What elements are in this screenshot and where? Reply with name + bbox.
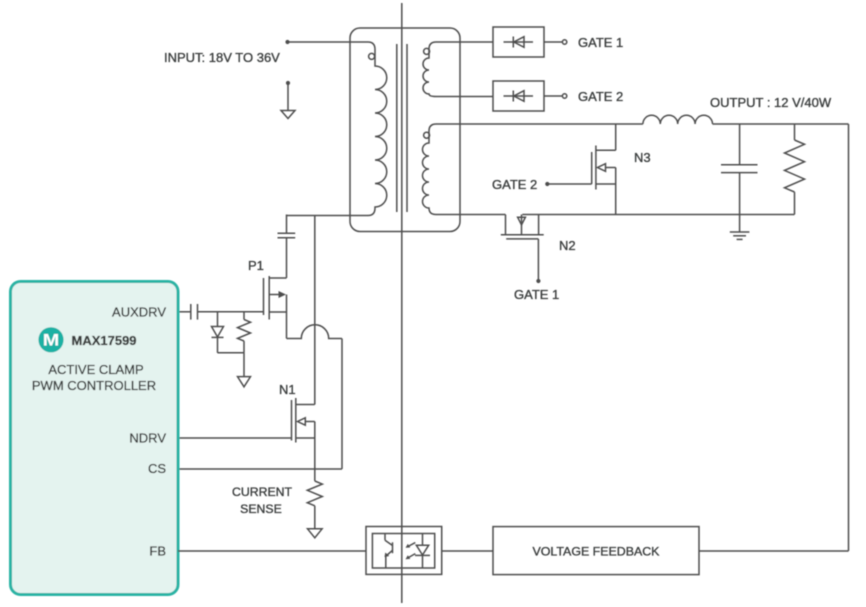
wire secondary bottom rail left [460, 214, 506, 216]
wire gate drive 1 output [544, 41, 562, 43]
wire primary bottom to clamp [287, 216, 351, 405]
transformer T1 secondary winding bottom [423, 124, 461, 215]
svg-text:ACTIVE CLAMP: ACTIVE CLAMP [48, 362, 143, 377]
wire FB to optocoupler [178, 550, 366, 552]
LED diode [422, 534, 424, 546]
LED emitter arrows [407, 543, 415, 547]
terminal GATE 2 at N3 [545, 182, 549, 186]
wire output right side down [848, 124, 850, 551]
transistor N2 [501, 215, 544, 280]
polarity dot secondary bottom [424, 132, 430, 138]
wire secondary output rail [460, 123, 643, 125]
svg-text:GATE 1: GATE 1 [578, 35, 623, 50]
transformer core lines [396, 44, 398, 212]
svg-text:SENSE: SENSE [240, 502, 282, 516]
capacitor C out [721, 165, 758, 173]
svg-text:INPUT: 18V TO 36V: INPUT: 18V TO 36V [164, 50, 280, 65]
terminal GATE 1 top [562, 40, 566, 44]
isolation boundary line [401, 3, 403, 603]
wire optocoupler to voltage feedback [442, 550, 493, 552]
wire GATE2 to N3 gate [549, 183, 592, 185]
wire CS [178, 468, 342, 470]
inductor L1 [643, 115, 713, 124]
svg-text:FB: FB [149, 544, 166, 559]
wire join diode resistor [218, 352, 245, 354]
svg-text:N2: N2 [559, 238, 576, 253]
capacitor C auxdrv series [191, 304, 198, 320]
polarity dot secondary top [424, 48, 430, 54]
transistor N3 [592, 124, 616, 215]
wire secondary to gate drive 2 [460, 96, 493, 98]
transistor P1 [264, 276, 287, 339]
svg-text:VOLTAGE FEEDBACK: VOLTAGE FEEDBACK [533, 545, 661, 559]
terminal GATE 2 top [562, 94, 566, 98]
resistor R load [785, 124, 805, 215]
svg-text:CURRENT: CURRENT [232, 485, 293, 499]
ground auxdrv network [238, 353, 251, 387]
optocoupler U2 [366, 527, 442, 575]
wire hop down to CS [341, 339, 343, 470]
svg-text:AUXDRV: AUXDRV [112, 305, 166, 320]
wire input to transformer [288, 41, 351, 43]
svg-text:GATE 1: GATE 1 [514, 287, 559, 302]
svg-text:N1: N1 [279, 382, 296, 397]
gate drive block D1 [493, 27, 544, 57]
transformer T1 secondary winding top [423, 42, 460, 97]
svg-text:N3: N3 [634, 150, 651, 165]
svg-text:M: M [43, 332, 60, 350]
phototransistor [384, 534, 386, 541]
svg-text:MAX17599: MAX17599 [72, 333, 137, 348]
capacitor C out branch wire [739, 124, 741, 164]
IC U1 MAX17599 box [11, 282, 179, 595]
wire NDRV to N1 gate [178, 437, 292, 439]
wire P1 source hop over drain wire [287, 325, 343, 339]
wire capacitor to ground [739, 173, 741, 232]
wire cap to P1 gate [198, 311, 264, 313]
ground output [730, 232, 750, 239]
polarity dot primary [369, 53, 375, 59]
svg-text:NDRV: NDRV [129, 431, 166, 446]
terminal GATE 1 at N2 [536, 279, 540, 283]
logo Maxim [38, 327, 63, 352]
wire gate drive 2 output [544, 95, 562, 97]
wire right side to voltage feedback [699, 550, 849, 552]
svg-text:P1: P1 [248, 258, 264, 273]
svg-text:GATE 2: GATE 2 [492, 177, 537, 192]
ground input return arrow [281, 81, 295, 119]
ground current sense [308, 529, 323, 538]
svg-text:CS: CS [148, 461, 166, 476]
wire AUXDRV pin [178, 311, 191, 313]
wire secondary top to gate drive 1 [460, 41, 493, 43]
svg-text:GATE 2: GATE 2 [578, 89, 623, 104]
transformer T1 primary winding [350, 42, 387, 216]
resistor R auxdrv [238, 312, 251, 353]
wire bottom rail right of N2 [522, 214, 794, 216]
diode D auxdrv [212, 312, 224, 353]
capacitor C clamp [278, 215, 296, 279]
svg-text:PWM CONTROLLER: PWM CONTROLLER [32, 378, 156, 393]
svg-text:OUTPUT : 12 V/40W: OUTPUT : 12 V/40W [710, 95, 832, 110]
resistor R current sense [307, 469, 322, 528]
transformer T1 outline [350, 28, 460, 232]
wire inductor to output corner [713, 123, 849, 125]
node input positive [285, 40, 289, 44]
gate drive block D2 [493, 81, 544, 111]
transistor N1 [292, 398, 315, 469]
block voltage feedback [493, 527, 699, 575]
